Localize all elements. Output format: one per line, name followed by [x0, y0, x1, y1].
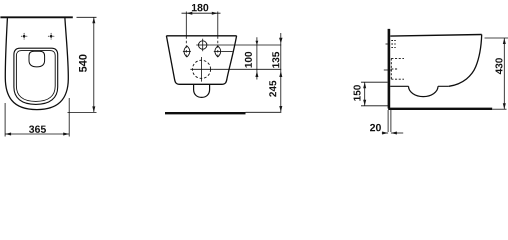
extension from fixing hole right (y51.4) [222, 50, 233, 52]
floor line middle (thick) [165, 112, 246, 114]
dimension 540 arrow up [92, 17, 95, 23]
outlet cross horizontal [190, 68, 213, 70]
dimension 135 line [280, 33, 282, 112]
dimension 150 extension bottom [361, 105, 388, 107]
dimension 180 arrow right [212, 12, 218, 15]
dimension 180 extension right dashed part [217, 36, 219, 57]
inlet circle [199, 41, 207, 49]
dimension 20 text [370, 124, 381, 131]
dimension 100 arrow down (top) [256, 41, 259, 46]
side outlet bump arc [409, 86, 439, 96]
dimension 180 text [192, 4, 208, 11]
side profile top edge [390, 35, 481, 37]
floor thin continuation [492, 108, 506, 110]
dimension 150 extension top [361, 81, 388, 83]
plan fixing marker left [21, 33, 27, 40]
dimension 430 arrow up [503, 38, 506, 44]
dimension 150 text [354, 85, 361, 101]
hidden outlet dashed rect: vertical [390, 58, 392, 79]
dimension 365 line [5, 133, 69, 135]
dimension 20 extension right [390, 110, 392, 132]
outlet dashed circle [192, 60, 210, 78]
dimension 100 line [256, 37, 258, 79]
inlet cross vertical [202, 39, 204, 52]
hidden outlet dashed mid (axis) [391, 68, 398, 70]
dimension 180 line [182, 12, 221, 14]
plan seat outer rim [14, 48, 58, 104]
dimension 180 arrow left [186, 12, 192, 15]
dimension 180 extension left solid part [185, 12, 187, 36]
outlet bump [194, 85, 210, 98]
fixing hole right cross tick [214, 50, 222, 52]
dimension 430 line [503, 38, 505, 109]
plan bowl inner line [16, 51, 55, 102]
hidden fixing dashes (3 rows) [391, 40, 395, 42]
body outline [166, 36, 236, 85]
dimension 135 arrow down (top) [279, 38, 282, 44]
dimension 20 line right tail [391, 132, 403, 134]
plan flush hole [29, 51, 45, 67]
dimension 365 text [29, 126, 46, 133]
dimension 365 arrow right [63, 133, 69, 136]
dimension 245 text [269, 81, 276, 97]
extension line from inlet (y45.3) [209, 44, 281, 46]
extension line from outlet (y69.9) [213, 68, 281, 70]
body top edge [166, 35, 236, 37]
dimension 430 text [495, 58, 502, 74]
outlet cross vertical [201, 57, 203, 82]
dimension 365 extension right [68, 98, 70, 137]
hidden outlet dashed top [391, 57, 404, 59]
side underside right segment [438, 85, 449, 87]
dimension 150 arrow up [363, 82, 366, 88]
dimension 430 extension top [485, 37, 508, 39]
fixing hole left cross tick [183, 50, 191, 52]
dimension 540 extension bottom [68, 111, 97, 113]
dimension 135 text [272, 52, 279, 68]
dimension 150 arrow down [363, 100, 366, 106]
tick through wall at outlet axis [384, 69, 392, 71]
inlet cross horizontal [196, 44, 209, 46]
dimension 20 line left tail [382, 132, 388, 134]
dimension 365 arrow left [5, 133, 11, 136]
fixing hole right (lens) [215, 46, 221, 57]
plan fixing marker right [48, 33, 54, 40]
floor line thin continuation [246, 111, 282, 113]
dimension 135 arrow up [279, 71, 282, 77]
side profile front curve [449, 35, 482, 87]
dimension 540 text [79, 55, 87, 73]
floor line (thick) [388, 108, 492, 110]
side underside left segment [390, 85, 408, 87]
plan outer body outline [5, 18, 68, 110]
dimension 20 arrow left-pointing [391, 132, 397, 135]
dimension 100 arrow up (bottom) [255, 71, 258, 77]
dimension 100 text [245, 52, 252, 68]
fixing hole left (lens) [184, 46, 190, 57]
dimension 245 arrow down (bottom) [279, 106, 282, 112]
hidden outlet dashed bottom [391, 78, 404, 80]
dimension 430 arrow down [503, 103, 506, 109]
dimension 150 line [364, 82, 366, 106]
dimension 540 extension top [77, 16, 97, 18]
dimension 540 arrow down [92, 106, 95, 112]
dimension 540 line [93, 17, 95, 112]
wall line top (thick) [0, 16, 72, 18]
dimension 180 extension left dashed part [185, 36, 187, 57]
dimension 365 extension left [4, 103, 6, 137]
dimension 20 extension left [387, 110, 389, 132]
wall line (thick) [388, 29, 391, 109]
tick through wall at fixing level [386, 43, 389, 45]
dimension 20 arrow right-pointing [382, 132, 388, 135]
dimension 180 extension right solid part [217, 12, 219, 36]
